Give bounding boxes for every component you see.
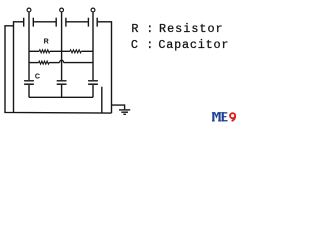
ground bar 2 [121,111,128,113]
wire top bus segment 3 [67,21,88,23]
logo ME9 letter M [212,112,221,121]
wire row B right [64,62,93,64]
wire bottom bus [29,96,93,98]
capacitor C2 bottom plate [57,83,67,85]
wire hop over column 2 [60,60,64,62]
terminal T1 [27,8,31,12]
capacitor C1 top plate [24,80,34,82]
wire row B left [29,62,39,64]
wire elbow to ground [112,105,125,109]
resistor zigzag 2 [70,50,81,53]
capacitor C1 lower stub [28,85,30,97]
wire row A middle [50,50,70,52]
capacitor plate left of column 3 [87,18,89,27]
capacitor C2 lower stub [61,85,63,97]
wire row A left [29,50,39,52]
wire left drop [13,21,15,112]
wire right drop [111,21,113,113]
svg-text::: : [146,22,153,36]
wire top bus segment 1 [14,21,24,23]
svg-text:Resistor: Resistor [159,22,224,36]
capacitor plate left of column 1 [23,18,25,27]
svg-text:Capacitor: Capacitor [158,38,229,52]
capacitor plate right of column 3 [96,18,98,27]
capacitor C3 lower stub [92,85,94,97]
wire column 3 [92,12,94,80]
capacitor C3 bottom plate [88,83,98,85]
terminal T2 [60,8,64,12]
capacitor plate right of column 2 [65,18,67,27]
svg-text:R: R [131,22,138,36]
capacitor plate right of column 1 [32,18,34,27]
resistor zigzag 3 [39,61,49,64]
shield outline [5,26,112,113]
logo ME9 letter E [221,112,227,121]
terminal T3 [91,8,95,12]
wire column 2 [61,12,63,80]
capacitor C1 bottom plate [24,83,34,85]
capacitor plate left of column 2 [55,18,57,27]
wire row A right [81,50,93,52]
ground bar 3 [123,113,126,115]
wire top bus segment 2 [34,21,56,23]
wire row B middle [49,62,60,64]
capacitor C3 top plate [88,80,98,82]
svg-text:C: C [131,38,138,52]
capacitor C2 top plate [57,80,67,82]
ground bar 1 [119,109,130,111]
svg-text::: : [146,38,153,52]
svg-text:C: C [35,73,40,81]
wire column 1 [28,12,30,80]
wire top bus segment 4 [98,21,112,23]
logo ME9 digit 9 [230,113,235,121]
shield right stub [101,87,103,113]
resistor R zigzag 1 [39,50,50,53]
svg-text:R: R [44,37,49,45]
